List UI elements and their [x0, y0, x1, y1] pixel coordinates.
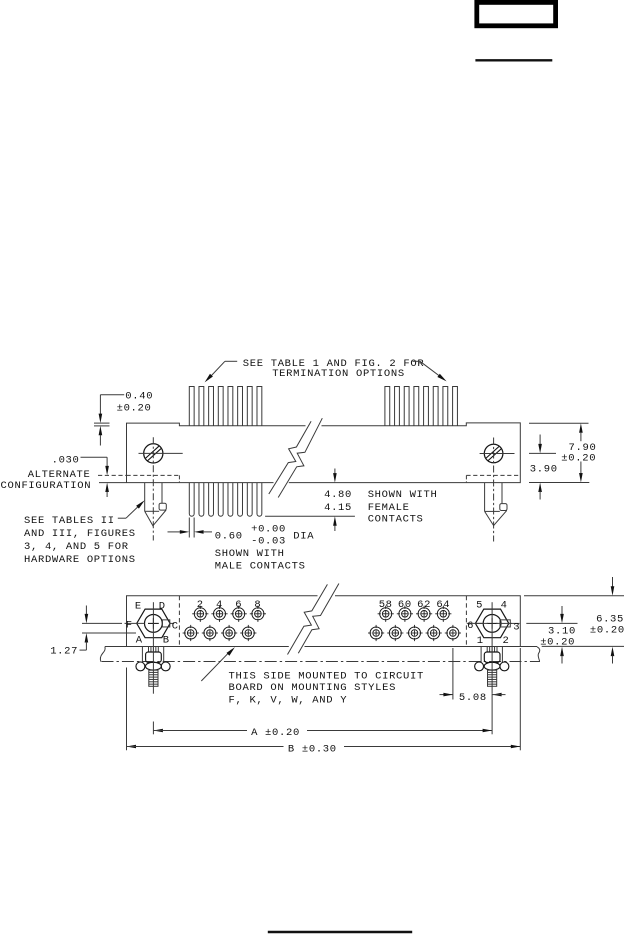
side view: right hardware (jackscrew) below body	[485, 483, 507, 526]
svg-text:4: 4	[501, 600, 508, 612]
dimension .030 alternate configuration	[1, 454, 127, 497]
svg-text:A: A	[136, 634, 143, 646]
contact number labels 2 4 6 8	[197, 599, 262, 611]
svg-text:E: E	[135, 600, 142, 612]
svg-text:.030: .030	[52, 454, 80, 466]
dimension 6.35 +/-0.20	[524, 577, 624, 664]
footer rule	[268, 931, 412, 934]
svg-text:SHOWN WITH: SHOWN WITH	[215, 548, 285, 560]
svg-text:C: C	[172, 621, 179, 633]
svg-text:SHOWN WITH: SHOWN WITH	[368, 489, 438, 501]
svg-text:FEMALE: FEMALE	[368, 502, 410, 514]
svg-text:B: B	[163, 634, 170, 646]
svg-text:MALE CONTACTS: MALE CONTACTS	[215, 560, 306, 572]
svg-text:62: 62	[417, 599, 431, 611]
note: shown with male contacts	[215, 548, 306, 572]
dimension 4.80 / 4.15 contact length	[265, 469, 355, 532]
circuit board surface line	[100, 647, 539, 662]
side view: left jackscrew head	[139, 437, 183, 540]
svg-text:AND III, FIGURES: AND III, FIGURES	[24, 528, 136, 540]
svg-text:0.60: 0.60	[215, 530, 243, 542]
svg-text:4.80: 4.80	[324, 489, 352, 501]
title block box (top right)	[477, 2, 556, 25]
dimension 0.60 DIA pin diameter	[168, 518, 315, 548]
note: see table 1 termination options	[205, 358, 447, 382]
svg-text:CONTACTS: CONTACTS	[368, 514, 424, 526]
bottom view: right mounting jackscrew with washers	[475, 647, 509, 694]
note: shown with female contacts	[368, 489, 438, 526]
right hex labels 5 4 6 3 1 2	[467, 600, 520, 648]
dimension 3.90	[529, 435, 558, 500]
side view: termination pins right group (above body)	[385, 387, 458, 426]
svg-text:-0.03: -0.03	[251, 536, 286, 548]
svg-text:2: 2	[503, 635, 510, 647]
bottom view: break symbol	[288, 584, 339, 655]
side view: break symbol	[269, 418, 323, 497]
svg-text:HARDWARE OPTIONS: HARDWARE OPTIONS	[24, 554, 136, 566]
svg-text:±0.20: ±0.20	[561, 453, 596, 465]
svg-text:3: 3	[513, 622, 520, 634]
side view: male contact pins (below body)	[189, 483, 262, 517]
svg-text:0.40: 0.40	[125, 391, 153, 403]
dimension 0.40 +/-0.20 (lip step)	[94, 391, 153, 446]
bottom view: left jack socket hex nut	[125, 602, 175, 646]
svg-text:8: 8	[254, 599, 261, 611]
note: this side mounted to circuit board	[201, 647, 424, 706]
side view: connector body outline	[99, 423, 520, 483]
dimension 3.10 +/-0.20	[476, 606, 578, 664]
svg-text:6: 6	[467, 620, 474, 632]
title underline	[475, 59, 552, 61]
side view: right jackscrew head	[480, 438, 515, 542]
svg-text:F: F	[126, 620, 133, 632]
svg-text:SEE TABLES II: SEE TABLES II	[24, 515, 115, 527]
svg-text:BOARD ON MOUNTING STYLES: BOARD ON MOUNTING STYLES	[229, 682, 397, 694]
svg-text:3, 4, AND 5 FOR: 3, 4, AND 5 FOR	[24, 541, 129, 553]
side view: termination pins left group (above body)	[189, 387, 262, 426]
svg-text:64: 64	[436, 599, 450, 611]
svg-text:4.15: 4.15	[324, 502, 352, 514]
svg-text:3.90: 3.90	[530, 464, 558, 476]
dimension 7.90 +/-0.20 body height	[529, 423, 596, 482]
dimension 1.27	[50, 606, 136, 658]
svg-text:CONFIGURATION: CONFIGURATION	[1, 480, 92, 492]
bottom view: hardware zone dashed separators	[179, 596, 466, 647]
bottom view: connector body outline	[127, 596, 521, 647]
svg-text:60: 60	[398, 599, 412, 611]
svg-text:2: 2	[197, 599, 204, 611]
svg-text:4: 4	[216, 599, 223, 611]
svg-text:1: 1	[477, 635, 484, 647]
svg-text:B ±0.30: B ±0.30	[288, 743, 337, 755]
svg-text:58: 58	[379, 599, 393, 611]
note: see tables II hardware options	[24, 500, 145, 566]
svg-text:6: 6	[235, 599, 242, 611]
svg-text:±0.20: ±0.20	[117, 403, 152, 415]
svg-text:A ±0.20: A ±0.20	[251, 727, 300, 739]
contact number labels 58 60 62 64	[379, 599, 451, 611]
side view: left hardware (jackscrew) below body	[145, 483, 167, 526]
bottom view: contact holes right group	[368, 606, 461, 641]
svg-text:F, K, V, W, AND Y: F, K, V, W, AND Y	[229, 694, 348, 706]
svg-text:TERMINATION OPTIONS: TERMINATION OPTIONS	[272, 368, 405, 380]
svg-text:5.08: 5.08	[459, 692, 487, 704]
bottom view: left mounting jackscrew with washers	[136, 647, 170, 694]
dimension A +/-0.20	[153, 700, 492, 739]
svg-text:5: 5	[476, 600, 483, 612]
svg-text:D: D	[159, 600, 166, 612]
bottom view: contact holes left group	[183, 606, 266, 641]
svg-text:THIS SIDE MOUNTED TO CIRCUIT: THIS SIDE MOUNTED TO CIRCUIT	[229, 671, 424, 683]
svg-text:+0.00: +0.00	[251, 524, 286, 536]
svg-text:1.27: 1.27	[50, 645, 78, 657]
side view: alternate configuration dashed outline	[127, 475, 521, 482]
dimension 5.08	[440, 648, 506, 704]
bottom view: right jack socket hex nut	[467, 602, 520, 646]
board centerline (dash-dot)	[102, 661, 541, 663]
dimension B +/-0.30	[127, 648, 521, 755]
svg-text:DIA: DIA	[293, 530, 314, 542]
left hex labels E D F C A B	[126, 600, 179, 646]
svg-text:±0.20: ±0.20	[590, 624, 624, 636]
